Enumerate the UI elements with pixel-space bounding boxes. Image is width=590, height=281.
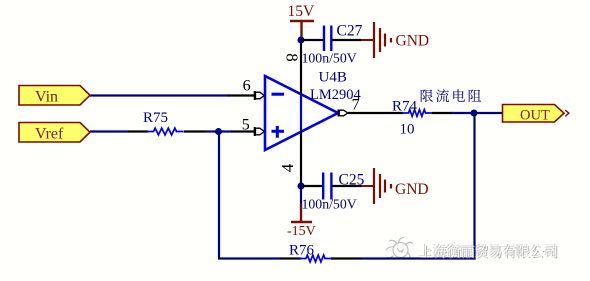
resistor R75 <box>143 110 183 135</box>
pin 4 of U4B <box>278 132 301 187</box>
wire feedback bottom left <box>218 257 301 259</box>
wire pin7 to R74 <box>348 112 403 114</box>
pin 5 of U4B <box>242 117 265 137</box>
wire junction to C27 <box>301 39 324 41</box>
node junction pin8/C27 <box>298 37 305 44</box>
pin 6 of U4B <box>228 78 264 101</box>
pin 8 of U4B <box>283 40 302 95</box>
watermark logo <box>386 237 413 259</box>
wire junction to C25 <box>301 185 323 187</box>
capacitor C27 <box>302 23 363 66</box>
svg-text:5: 5 <box>242 117 250 134</box>
svg-text:R74: R74 <box>392 99 418 115</box>
svg-text:10: 10 <box>400 122 415 138</box>
svg-text:GND: GND <box>396 33 430 50</box>
svg-text:C27: C27 <box>337 23 363 40</box>
wire feedback right vertical <box>473 113 475 260</box>
svg-text:R75: R75 <box>143 110 168 126</box>
ground GND top <box>361 22 429 58</box>
svg-text:100n/50V: 100n/50V <box>302 197 357 212</box>
svg-text:8: 8 <box>283 53 302 62</box>
wire feedback left vertical <box>218 132 220 259</box>
resistor R76 <box>289 243 331 262</box>
svg-text:15V: 15V <box>288 3 316 20</box>
svg-text:OUT: OUT <box>520 108 550 124</box>
power -15V <box>287 186 316 239</box>
svg-text:Vref: Vref <box>35 126 64 143</box>
wire Vref to R75 <box>90 130 148 132</box>
node junction pin4/C25 <box>298 183 305 190</box>
resistor R74 <box>392 99 452 138</box>
svg-text:7: 7 <box>352 97 360 114</box>
svg-text:Vin: Vin <box>35 89 58 106</box>
svg-text:R76: R76 <box>289 243 315 259</box>
svg-text:100n/50V: 100n/50V <box>302 51 357 66</box>
op-amp U4B <box>265 70 362 151</box>
svg-text:6: 6 <box>243 78 251 95</box>
watermark text 上海衡丽贸易有限公司 <box>419 244 558 259</box>
terminal Vin <box>19 86 90 106</box>
wire Vin to pin6 <box>90 94 229 96</box>
pin 7 of U4B output <box>339 97 360 117</box>
terminal Vref <box>19 123 90 143</box>
wire C27 to GND <box>333 39 363 41</box>
svg-text:-15V: -15V <box>287 224 316 239</box>
wire feedback bottom right <box>331 257 475 259</box>
wire R74 to OUT <box>451 112 503 114</box>
wire C25 to GND <box>333 185 363 187</box>
wire R75 to pin5 <box>184 130 255 132</box>
power +15V <box>288 3 316 40</box>
ground GND bottom <box>361 168 429 204</box>
node junction Vref/feedback <box>215 128 222 135</box>
svg-text:4: 4 <box>278 163 297 172</box>
capacitor C25 <box>302 172 365 212</box>
node junction output/feedback <box>471 110 478 117</box>
label 限流电阻 <box>421 89 481 102</box>
svg-text:U4B: U4B <box>319 70 347 86</box>
terminal OUT <box>503 105 569 124</box>
svg-text:GND: GND <box>395 181 429 198</box>
